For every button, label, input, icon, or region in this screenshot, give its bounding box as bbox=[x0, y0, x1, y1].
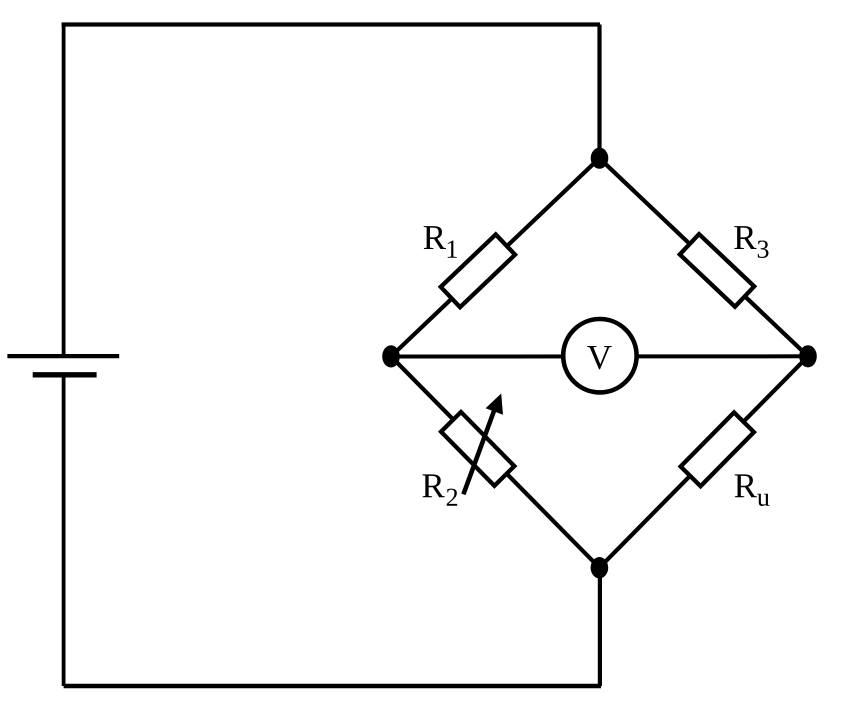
resistor R3 body bbox=[680, 234, 754, 307]
voltmeter V label bbox=[587, 346, 611, 369]
variable-resistor arrow through R2 bbox=[463, 394, 503, 495]
wire: top horizontal bbox=[62, 22, 600, 26]
label Ru subscript u bbox=[757, 494, 769, 506]
label R3 letter bbox=[734, 226, 756, 249]
label R1 letter bbox=[424, 226, 446, 249]
battery BT1 negative plate bbox=[33, 372, 97, 377]
label Ru letter bbox=[735, 474, 757, 497]
label R2 letter bbox=[422, 474, 444, 497]
label R1 subscript 1 bbox=[448, 241, 457, 258]
node B (left junction) bbox=[382, 345, 400, 367]
wire: bridge arm bottom-right bbox=[599, 356, 808, 567]
node A (top junction) bbox=[591, 148, 609, 169]
label R2 subscript 2 bbox=[447, 489, 457, 506]
wire: bottom horizontal bbox=[64, 684, 601, 688]
wire: left vertical lower (battery bottom) bbox=[62, 375, 66, 686]
resistor R1 body bbox=[441, 234, 515, 307]
wire: top node drop bbox=[597, 25, 601, 159]
voltmeter V body bbox=[563, 319, 636, 392]
node D (bottom junction) bbox=[591, 557, 609, 578]
battery BT1 positive plate bbox=[7, 354, 119, 358]
wire: galvanometer branch bbox=[391, 354, 808, 358]
resistor Ru body bbox=[681, 412, 754, 486]
wire: left vertical upper (battery top) bbox=[62, 23, 66, 357]
resistor R2 body (variable) bbox=[441, 412, 514, 486]
wire: bridge arm top-right bbox=[599, 158, 808, 356]
wire: bridge arm bottom-left bbox=[391, 356, 599, 567]
label R3 subscript 3 bbox=[758, 240, 769, 257]
wire: bridge arm top-left bbox=[391, 158, 599, 356]
wire: bottom node drop bbox=[598, 568, 602, 686]
node C (right junction) bbox=[799, 345, 817, 367]
